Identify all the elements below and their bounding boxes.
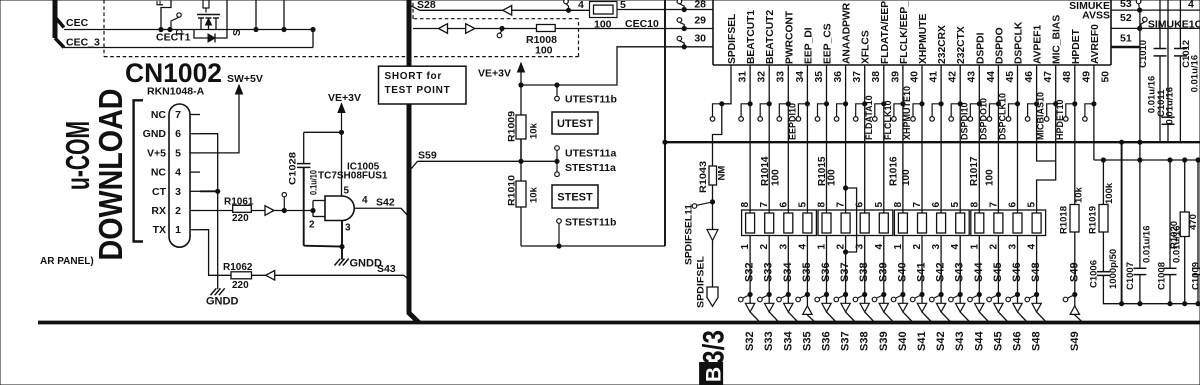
svg-text:C1008: C1008	[1157, 262, 1168, 290]
svg-text:100: 100	[827, 169, 838, 186]
svg-text:R1014: R1014	[760, 156, 771, 186]
svg-text:S36: S36	[820, 262, 832, 282]
svg-text:NM: NM	[717, 166, 728, 181]
svg-text:S41: S41	[916, 262, 928, 282]
svg-text:3: 3	[345, 223, 351, 234]
svg-text:6: 6	[1008, 202, 1019, 208]
svg-text:TX: TX	[153, 224, 166, 236]
svg-text:51: 51	[1120, 33, 1132, 45]
svg-text:S35: S35	[801, 331, 813, 351]
svg-text:HPDET: HPDET	[1071, 28, 1082, 64]
svg-text:CN1002: CN1002	[125, 58, 222, 88]
svg-text:S40: S40	[896, 262, 908, 282]
svg-text:S46: S46	[1012, 331, 1024, 351]
svg-text:B: B	[703, 367, 726, 382]
svg-text:S49: S49	[1069, 331, 1081, 351]
svg-text:S35: S35	[801, 262, 813, 282]
svg-text:7: 7	[988, 202, 999, 208]
svg-text:V+5: V+5	[147, 147, 166, 159]
svg-text:SPDIFSEL11: SPDIFSEL11	[684, 203, 695, 265]
svg-text:5: 5	[344, 186, 350, 197]
svg-text:XFLCS: XFLCS	[861, 30, 872, 64]
svg-text:SPDIFSEL: SPDIFSEL	[696, 256, 707, 308]
svg-text:ANAADPWR: ANAADPWR	[842, 2, 853, 64]
svg-text:100: 100	[535, 45, 553, 57]
svg-text:45: 45	[1005, 71, 1016, 83]
svg-text:FLCLK/EEP_: FLCLK/EEP_	[899, 1, 910, 64]
svg-text:28: 28	[694, 0, 706, 11]
svg-text:UTEST: UTEST	[557, 118, 593, 130]
svg-text:4: 4	[1188, 0, 1194, 11]
svg-text:31: 31	[738, 71, 749, 83]
svg-text:UTEST11b: UTEST11b	[565, 94, 617, 106]
svg-text:33: 33	[776, 71, 787, 83]
svg-text:S59: S59	[418, 150, 437, 162]
svg-text:R1019: R1019	[1088, 206, 1099, 234]
svg-text:7: 7	[175, 109, 181, 121]
svg-text:S45: S45	[992, 262, 1004, 282]
svg-text:GNDD: GNDD	[350, 258, 382, 270]
svg-text:R1017: R1017	[969, 156, 980, 186]
svg-text:BEATCUT1: BEATCUT1	[746, 10, 757, 64]
svg-text:S40: S40	[897, 331, 909, 351]
svg-text:0.01u/16: 0.01u/16	[1190, 55, 1200, 93]
svg-text:XHPMUTE: XHPMUTE	[918, 14, 929, 64]
svg-text:CEC: CEC	[66, 17, 89, 29]
svg-text:232CTX: 232CTX	[956, 26, 967, 64]
svg-text:10k: 10k	[1074, 186, 1085, 203]
svg-text:100: 100	[901, 169, 912, 186]
svg-text:C1006: C1006	[1089, 260, 1100, 288]
svg-text:R1043: R1043	[698, 161, 709, 193]
svg-text:AVSS: AVSS	[1082, 10, 1110, 22]
svg-text:EEP_DI: EEP_DI	[803, 27, 814, 64]
svg-text:38: 38	[871, 71, 882, 83]
svg-text:STEST: STEST	[557, 192, 593, 204]
svg-text:S: S	[232, 29, 243, 36]
svg-text:TC7SH08FUS1: TC7SH08FUS1	[318, 171, 388, 182]
svg-text:5: 5	[1027, 202, 1038, 208]
svg-text:S44: S44	[973, 331, 985, 351]
svg-text:GND: GND	[143, 128, 167, 140]
svg-text:R1020: R1020	[1169, 221, 1180, 249]
svg-text:STEST11b: STEST11b	[565, 217, 616, 229]
svg-text:39: 39	[890, 71, 901, 83]
svg-text:S41: S41	[916, 331, 928, 351]
svg-text:36: 36	[833, 71, 844, 83]
svg-text:u-COM: u-COM	[59, 121, 96, 190]
svg-text:6: 6	[175, 128, 181, 140]
svg-text:47: 47	[1043, 71, 1054, 83]
svg-text:R1018: R1018	[1059, 206, 1070, 234]
svg-text:STEST11a: STEST11a	[565, 162, 616, 174]
svg-text:30: 30	[694, 33, 706, 45]
svg-text:PWRCONT: PWRCONT	[784, 10, 795, 64]
svg-text:C1010: C1010	[1138, 40, 1149, 68]
svg-text:DOWNLOAD: DOWNLOAD	[92, 89, 129, 261]
svg-text:S46: S46	[1011, 262, 1023, 282]
svg-text:220: 220	[232, 213, 249, 224]
svg-text:S32: S32	[744, 262, 756, 282]
svg-text:C1028: C1028	[288, 152, 299, 185]
svg-text:40: 40	[909, 71, 920, 83]
svg-text:5: 5	[950, 202, 961, 208]
svg-text:37: 37	[852, 71, 863, 83]
svg-text:220: 220	[232, 280, 249, 291]
svg-text:RKN1048-A: RKN1048-A	[147, 86, 205, 98]
svg-text:41: 41	[929, 71, 940, 83]
svg-text:R1016: R1016	[889, 156, 900, 186]
svg-text:DSPDO: DSPDO	[994, 27, 1005, 64]
svg-text:7: 7	[759, 202, 770, 208]
svg-text:GNDD: GNDD	[206, 296, 238, 308]
svg-text:F: F	[155, 0, 165, 6]
svg-text:8: 8	[740, 202, 751, 208]
svg-text:DSPCLK: DSPCLK	[1014, 21, 1025, 64]
svg-text:S36: S36	[821, 331, 833, 351]
svg-text:S37: S37	[839, 262, 851, 282]
svg-text:S42: S42	[376, 197, 395, 209]
svg-text:S33: S33	[763, 262, 775, 282]
svg-text:5: 5	[175, 147, 181, 159]
svg-text:NC: NC	[151, 167, 167, 179]
svg-text:232CRX: 232CRX	[937, 25, 948, 64]
svg-text:S39: S39	[877, 262, 889, 282]
svg-text:SHORT for: SHORT for	[385, 71, 442, 82]
svg-text:29: 29	[694, 15, 706, 27]
svg-text:5: 5	[797, 202, 808, 208]
svg-text:50: 50	[1100, 71, 1111, 83]
svg-text:S45: S45	[992, 331, 1004, 351]
svg-text:S43: S43	[954, 331, 966, 351]
svg-text:SW+5V: SW+5V	[227, 73, 263, 85]
svg-text:C1009: C1009	[1191, 262, 1200, 290]
svg-text:MIC_BIAS: MIC_BIAS	[1052, 15, 1063, 64]
svg-text:SPDIFSEL: SPDIFSEL	[727, 14, 738, 64]
svg-text:4: 4	[578, 0, 584, 11]
svg-text:52: 52	[1120, 12, 1132, 24]
svg-text:S49: S49	[1068, 262, 1080, 282]
svg-text:SIMUKE1C: SIMUKE1C	[1148, 19, 1200, 31]
svg-text:53: 53	[1120, 0, 1132, 10]
svg-text:4: 4	[175, 167, 181, 179]
svg-text:44: 44	[986, 71, 997, 83]
svg-text:32: 32	[757, 71, 768, 83]
svg-text:NC: NC	[151, 109, 167, 121]
svg-text:10k: 10k	[529, 186, 540, 203]
svg-text:100k: 100k	[1104, 182, 1115, 204]
svg-text:S38: S38	[858, 262, 870, 282]
svg-text:R1010: R1010	[507, 175, 518, 206]
svg-text:S34: S34	[782, 262, 794, 282]
svg-text:S34: S34	[782, 331, 794, 351]
svg-text:FLDATA/EEP: FLDATA/EEP	[880, 1, 891, 64]
svg-text:VE+3V: VE+3V	[328, 92, 361, 104]
svg-text:C1007: C1007	[1125, 262, 1136, 290]
svg-text:5: 5	[874, 202, 885, 208]
svg-text:S33: S33	[763, 331, 775, 351]
svg-text:RX: RX	[151, 205, 166, 217]
svg-text:8: 8	[817, 202, 828, 208]
svg-text:AVPEF1: AVPEF1	[1033, 24, 1044, 64]
svg-text:4: 4	[362, 195, 368, 206]
svg-text:0.01u/16: 0.01u/16	[1142, 226, 1153, 264]
svg-text:10k: 10k	[529, 122, 540, 139]
svg-text:6: 6	[931, 202, 942, 208]
svg-text:0.01u/16: 0.01u/16	[1165, 87, 1176, 125]
svg-text:1000p/50: 1000p/50	[1108, 249, 1119, 289]
svg-text:49: 49	[1081, 71, 1092, 83]
svg-text:S42: S42	[935, 331, 947, 351]
svg-text:100: 100	[985, 169, 996, 186]
svg-text:R1009: R1009	[507, 111, 518, 142]
svg-text:8: 8	[893, 202, 904, 208]
svg-text:7: 7	[836, 202, 847, 208]
svg-text:S28: S28	[417, 0, 436, 11]
svg-text:BEATCUT2: BEATCUT2	[765, 10, 776, 64]
svg-text:S44: S44	[973, 262, 985, 282]
svg-text:DSPDI: DSPDI	[975, 32, 986, 64]
svg-text:S37: S37	[840, 331, 852, 351]
svg-text:S48: S48	[1031, 331, 1043, 351]
svg-text:VE+3V: VE+3V	[478, 68, 511, 80]
svg-text:EEP_CS: EEP_CS	[823, 23, 834, 64]
svg-text:S42: S42	[935, 262, 947, 282]
svg-text:S32: S32	[744, 331, 756, 351]
svg-text:S43: S43	[954, 262, 966, 282]
svg-text:2: 2	[175, 205, 181, 217]
svg-text:CT: CT	[152, 186, 167, 198]
svg-text:AVREF0: AVREF0	[1090, 24, 1101, 64]
svg-text:7: 7	[912, 202, 923, 208]
svg-text:46: 46	[1024, 71, 1035, 83]
svg-text:1: 1	[175, 224, 181, 236]
svg-text:S39: S39	[878, 331, 890, 351]
svg-text:2: 2	[309, 220, 315, 231]
svg-text:CEC_3: CEC_3	[66, 37, 100, 49]
svg-text:3/3: 3/3	[698, 330, 731, 364]
svg-text:34: 34	[795, 71, 806, 83]
svg-text:TEST POINT: TEST POINT	[385, 85, 451, 96]
svg-text:S38: S38	[859, 331, 871, 351]
svg-text:100: 100	[771, 169, 782, 186]
svg-text:8: 8	[969, 202, 980, 208]
svg-text:UTEST11a: UTEST11a	[565, 148, 617, 160]
svg-text:35: 35	[814, 71, 825, 83]
svg-text:6: 6	[778, 202, 789, 208]
svg-text:43: 43	[967, 71, 978, 83]
svg-text:CECT1: CECT1	[156, 32, 191, 44]
svg-text:3: 3	[175, 186, 181, 198]
svg-text:42: 42	[948, 71, 959, 83]
svg-text:5: 5	[620, 0, 626, 11]
svg-text:AR PANEL): AR PANEL)	[40, 256, 94, 267]
svg-text:48: 48	[1062, 71, 1073, 83]
svg-text:S48: S48	[1030, 262, 1042, 282]
